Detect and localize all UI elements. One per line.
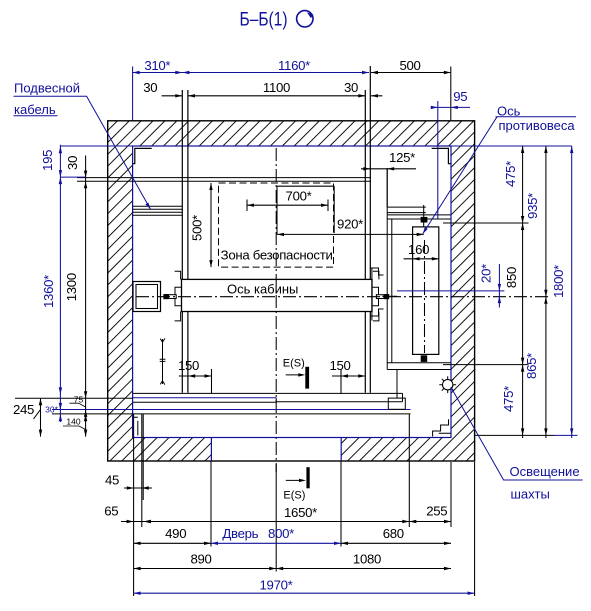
svg-text:30*: 30* [45,405,58,415]
svg-text:30: 30 [143,80,157,95]
svg-text:310*: 310* [144,58,170,73]
svg-text:65: 65 [104,504,118,519]
svg-text:Ось: Ось [497,104,521,119]
svg-text:1650*: 1650* [284,505,317,520]
svg-text:475*: 475* [501,386,516,412]
svg-text:Дверь: Дверь [222,526,258,541]
svg-text:30: 30 [344,80,358,95]
svg-text:865*: 865* [524,353,539,379]
svg-text:935*: 935* [525,193,540,219]
svg-text:150: 150 [329,358,350,373]
svg-text:кабель: кабель [14,102,56,117]
svg-text:20*: 20* [479,264,494,283]
svg-text:125*: 125* [389,150,415,165]
svg-text:500: 500 [399,58,420,73]
svg-text:680: 680 [383,526,404,541]
svg-text:противовеса: противовеса [499,118,576,133]
svg-text:75: 75 [74,394,84,404]
svg-text:1160*: 1160* [278,58,310,73]
svg-text:Ось кабины: Ось кабины [227,282,298,297]
svg-text:255: 255 [426,504,447,519]
svg-text:1360*: 1360* [41,275,56,308]
svg-text:800*: 800* [268,526,294,541]
svg-text:Подвесной: Подвесной [14,81,80,96]
svg-text:Б–Б(1): Б–Б(1) [240,10,288,31]
svg-text:195: 195 [40,150,55,171]
svg-text:700*: 700* [286,189,312,204]
svg-text:850: 850 [504,267,519,288]
svg-text:95: 95 [453,89,467,104]
svg-text:160: 160 [408,242,429,257]
svg-text:920*: 920* [337,217,363,232]
svg-text:E(S): E(S) [283,490,305,502]
svg-text:475*: 475* [503,161,518,187]
svg-text:1970*: 1970* [260,578,293,593]
svg-text:490: 490 [165,526,186,541]
svg-text:Освещение: Освещение [510,464,580,479]
svg-text:Зона безопасности: Зона безопасности [221,248,333,263]
svg-text:1080: 1080 [353,552,381,567]
svg-text:30: 30 [65,156,80,170]
svg-text:1300: 1300 [64,273,79,301]
svg-text:45: 45 [105,473,119,488]
svg-text:E(S): E(S) [283,358,305,370]
svg-text:890: 890 [190,552,211,567]
svg-text:245: 245 [13,402,34,417]
svg-text:1100: 1100 [263,80,290,95]
svg-text:150: 150 [178,358,199,373]
svg-text:1800*: 1800* [551,265,566,298]
svg-text:500*: 500* [190,215,205,241]
svg-text:140: 140 [66,417,80,427]
svg-text:шахты: шахты [511,487,550,502]
